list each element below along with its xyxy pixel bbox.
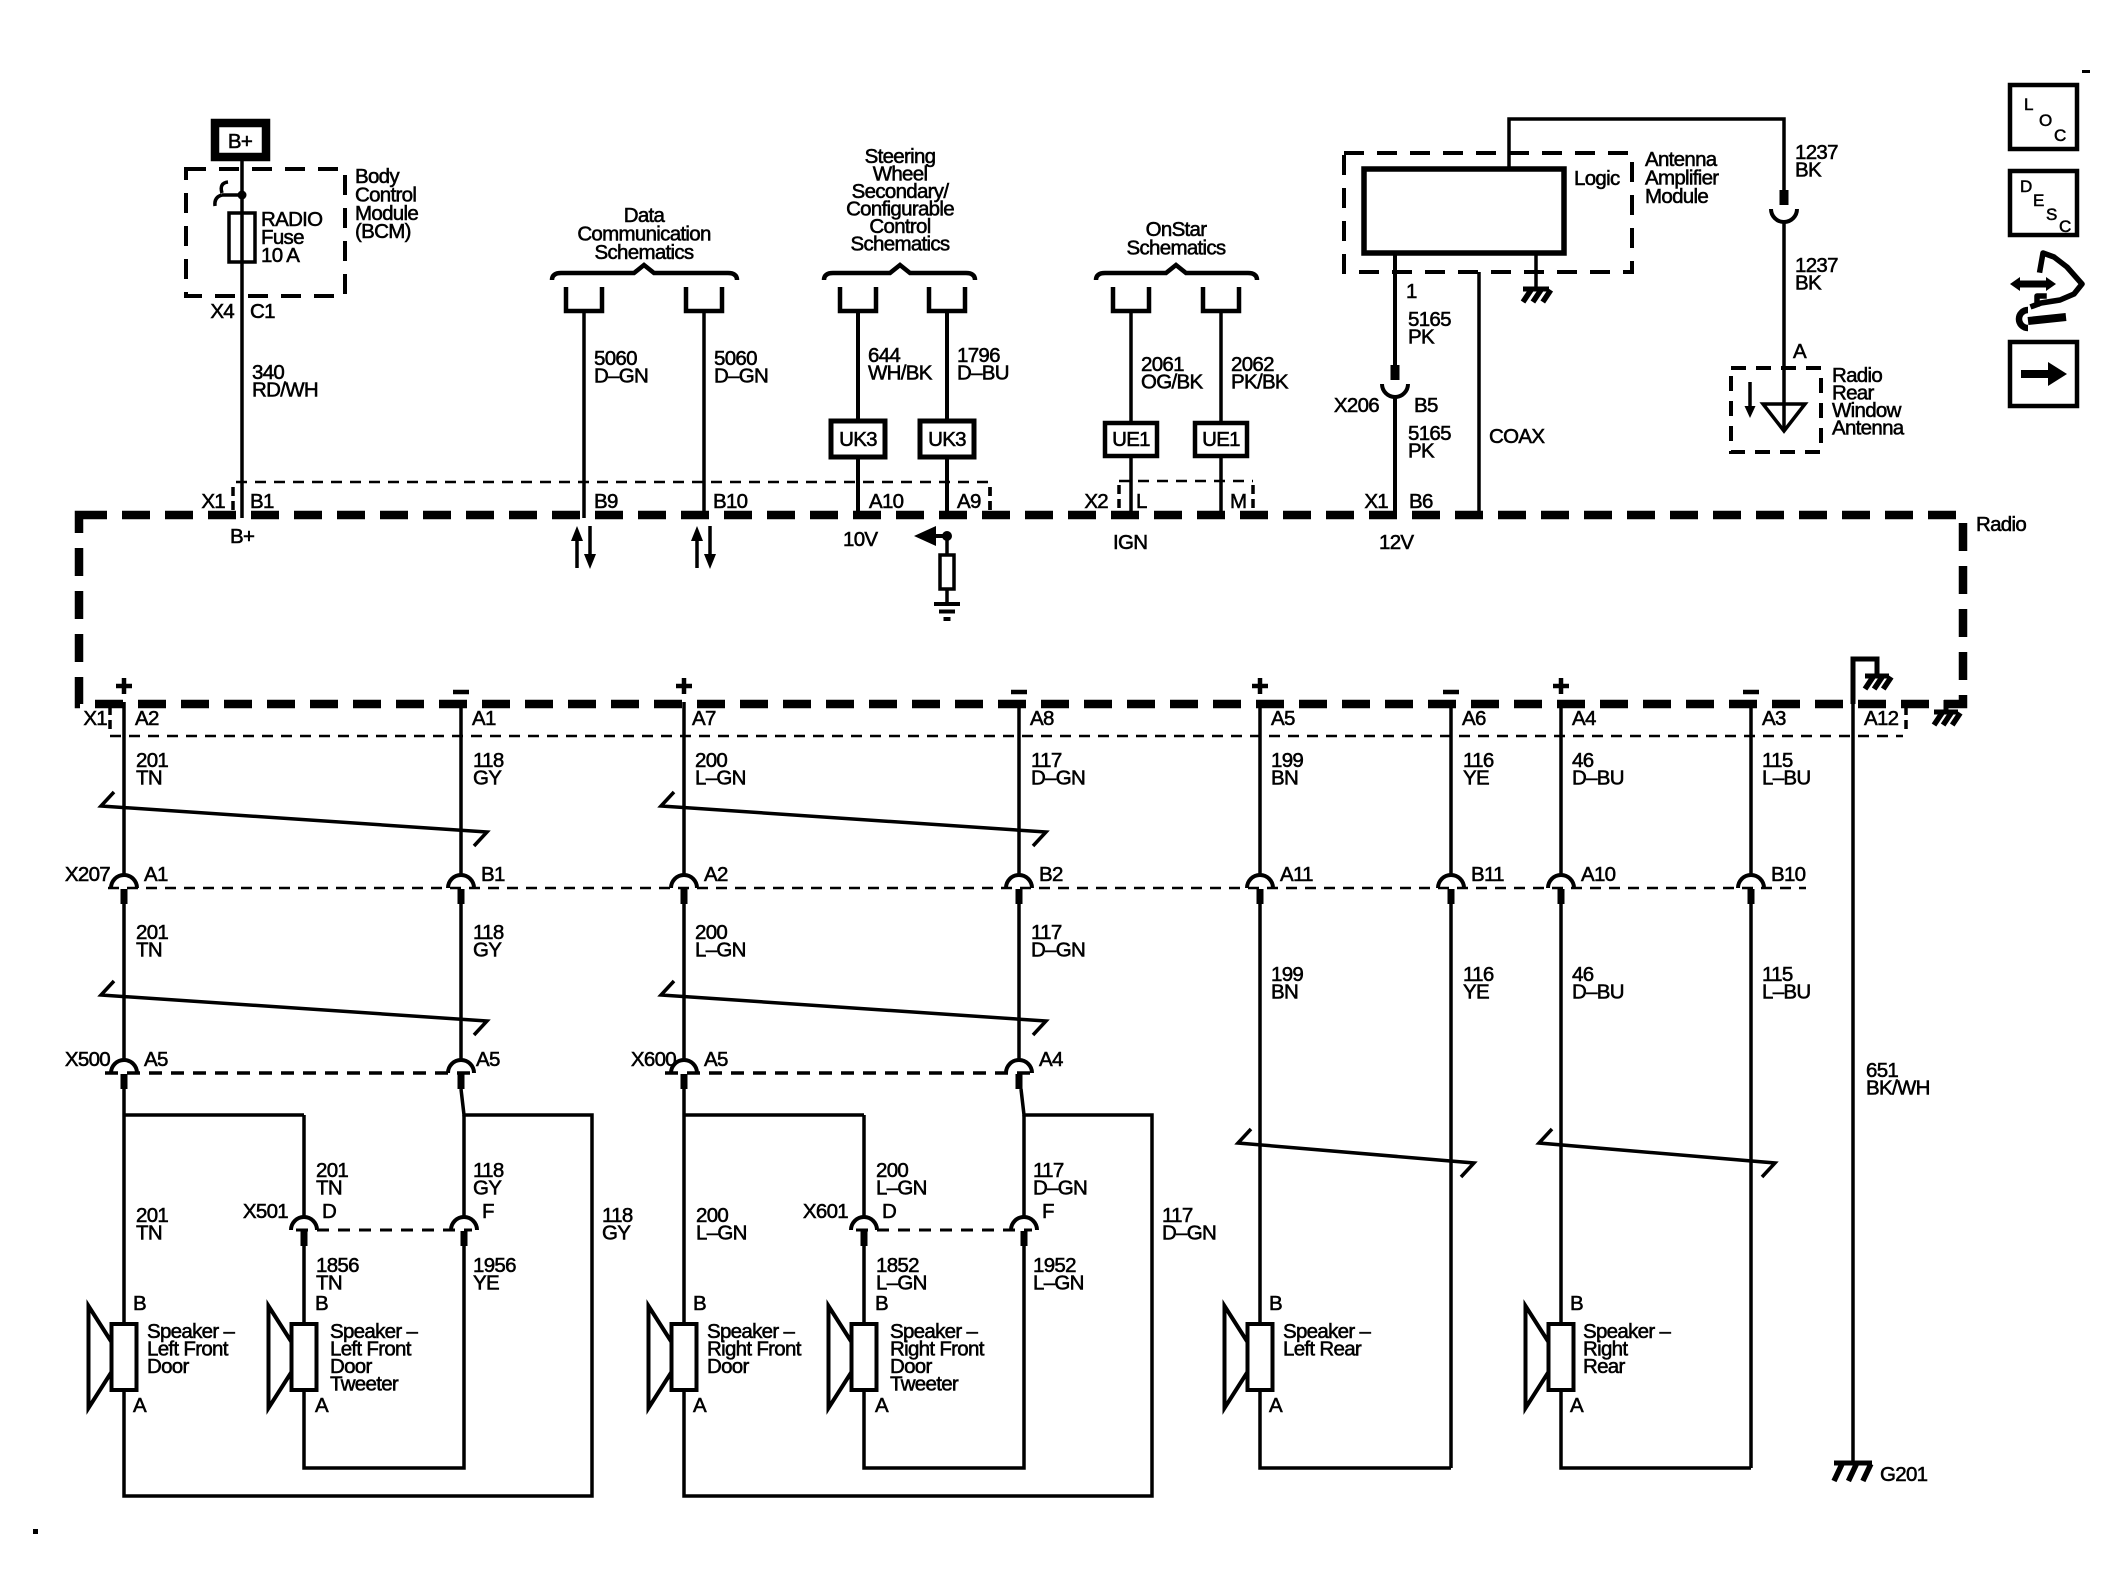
connector X207 pin B10: [1738, 863, 1806, 904]
svg-text:D–GN: D–GN: [1031, 939, 1085, 962]
data communication schematics title and brace: [552, 204, 737, 280]
svg-text:F: F: [482, 1200, 494, 1223]
pin B6 at radio connector X1: [1364, 490, 1433, 513]
svg-text:Module: Module: [1645, 185, 1708, 208]
svg-text:L–GN: L–GN: [695, 939, 746, 962]
connector X600 pin A4: [1006, 1048, 1063, 1089]
svg-text:X501: X501: [243, 1200, 288, 1223]
svg-text:A8: A8: [1030, 707, 1054, 730]
svg-text:TN: TN: [316, 1177, 342, 1200]
svg-text:TN: TN: [136, 767, 162, 790]
svg-text:X601: X601: [803, 1200, 848, 1223]
node 12V: [1379, 531, 1414, 554]
connector X600 row: [631, 1048, 1035, 1073]
svg-text:B: B: [1269, 1292, 1282, 1315]
svg-text:D–BU: D–BU: [1572, 767, 1624, 790]
radio case ground at right corner: [1934, 700, 1960, 725]
speaker left rear: [1225, 1292, 1372, 1417]
svg-text:GY: GY: [473, 939, 502, 962]
right rear speaker loop: [1561, 1390, 1751, 1468]
wire 2061 OG/BK: [1131, 311, 1203, 518]
svg-text:Schematics: Schematics: [595, 241, 694, 264]
svg-text:D: D: [322, 1200, 336, 1223]
svg-text:B: B: [315, 1292, 328, 1315]
twisted pair crossover left front (speaker side): [101, 981, 487, 1035]
wire 116 YE radio to X207: [1451, 702, 1494, 875]
radio output pin labels: [135, 707, 1899, 730]
wire 118 GY return left front door: [124, 1089, 633, 1496]
connector drop M: [1203, 287, 1239, 311]
wire 1856 TN tweeter feed: [304, 1246, 359, 1324]
svg-text:X2: X2: [1084, 490, 1108, 513]
connector X600 pin A5: [671, 1048, 728, 1089]
node IGN: [1113, 531, 1147, 554]
svg-text:E: E: [2033, 191, 2044, 210]
svg-text:A1: A1: [144, 863, 168, 886]
wire 5060 D-GN to B9: [584, 311, 648, 518]
connector X601 pin F: [1011, 1200, 1054, 1246]
svg-text:X1: X1: [83, 707, 107, 730]
connector X501 pin D: [291, 1200, 336, 1246]
twisted pair crossover right front (speaker side): [661, 981, 1046, 1035]
connector X207 pin A2: [671, 863, 728, 904]
wire 200 L–GN radio to X207: [684, 702, 746, 875]
wire 115 L–BU X207 to rear speaker: [1751, 904, 1810, 1468]
radio speaker output polarity marks: [116, 678, 1759, 694]
svg-text:A3: A3: [1762, 707, 1786, 730]
svg-text:A10: A10: [1581, 863, 1616, 886]
svg-text:C: C: [2054, 126, 2066, 145]
svg-text:D–GN: D–GN: [714, 365, 768, 388]
stray scan mark bottom left: [33, 1529, 38, 1534]
svg-text:Rear: Rear: [1583, 1355, 1626, 1378]
svg-text:Schematics: Schematics: [1127, 236, 1226, 259]
option code UK3 on wire 1796: [920, 421, 974, 457]
svg-text:X1: X1: [1364, 490, 1388, 513]
svg-text:TN: TN: [136, 939, 162, 962]
svg-text:Tweeter: Tweeter: [330, 1373, 399, 1396]
wire 5165 PK to radio pin B6: [1395, 397, 1451, 518]
wire 1237 BK lower segment: [1784, 222, 1838, 430]
wire 2062 PK/BK: [1221, 311, 1289, 518]
wire 200 L–GN feed right front door speaker: [684, 1089, 864, 1324]
connector X4 pin C1: [210, 300, 275, 323]
connector X501 pin F: [451, 1200, 494, 1246]
wire 46 D–BU X207 to rear speaker: [1561, 904, 1624, 1324]
wire 1 5165 PK from logic: [1395, 253, 1451, 365]
svg-text:A5: A5: [144, 1048, 168, 1071]
svg-text:L: L: [2024, 95, 2033, 114]
icon forward arrow box: [2010, 342, 2077, 406]
connector X207 pin B11: [1438, 863, 1504, 904]
option code UK3 on wire 644: [831, 421, 885, 457]
svg-text:BK: BK: [1795, 159, 1822, 182]
wire 201 TN X207 to front connector: [124, 904, 168, 1060]
body control module BCM dashed box: [186, 165, 418, 296]
svg-text:A: A: [1269, 1394, 1283, 1417]
twisted pair crossover right rear: [1539, 1129, 1775, 1177]
svg-text:A9: A9: [957, 490, 981, 513]
svg-text:B10: B10: [1771, 863, 1806, 886]
svg-text:Schematics: Schematics: [851, 233, 950, 256]
connector drop B10: [686, 287, 722, 311]
wire 118 GY radio to X207: [461, 702, 504, 875]
antenna amplifier module dashed box: [1344, 148, 1719, 272]
svg-text:L–BU: L–BU: [1762, 767, 1810, 790]
pin B9: [594, 490, 618, 513]
node 10V: [843, 528, 878, 551]
svg-text:B10: B10: [713, 490, 748, 513]
svg-text:A10: A10: [869, 490, 904, 513]
connector drop L: [1113, 287, 1149, 311]
wire 115 L–BU radio to X207: [1751, 702, 1810, 875]
svg-text:C: C: [2059, 217, 2071, 236]
svg-text:A2: A2: [704, 863, 728, 886]
svg-text:L–GN: L–GN: [695, 767, 746, 790]
svg-text:BK: BK: [1795, 272, 1822, 295]
connector X2 strip with pins L and M: [1084, 481, 1253, 513]
svg-text:X4: X4: [210, 300, 234, 323]
svg-text:B: B: [1570, 1292, 1583, 1315]
speaker left front door: [89, 1292, 236, 1417]
icon LOC box: [2010, 85, 2077, 149]
speaker left front door tweeter: [269, 1292, 419, 1417]
svg-text:B9: B9: [594, 490, 618, 513]
wire 46 D–BU radio to X207: [1561, 702, 1624, 875]
icon DESC box: [2010, 171, 2077, 236]
svg-text:Door: Door: [707, 1355, 750, 1378]
svg-text:IGN: IGN: [1113, 531, 1147, 554]
connector X500 pin A5 right: [448, 1048, 500, 1089]
ground of logic block: [1523, 253, 1551, 302]
connector X207 row: [65, 863, 1806, 888]
svg-text:A6: A6: [1462, 707, 1486, 730]
node B+ at radio pin B1: [230, 525, 254, 548]
connector drop A9: [929, 287, 965, 311]
wire 117 D–GN X207 to front connector: [1019, 904, 1085, 1060]
svg-text:A: A: [693, 1394, 707, 1417]
svg-text:UK3: UK3: [928, 428, 966, 451]
svg-text:A: A: [315, 1394, 329, 1417]
svg-text:D–BU: D–BU: [1572, 981, 1624, 1004]
svg-text:D–GN: D–GN: [594, 365, 648, 388]
stray scan mark top right: [2082, 70, 2090, 73]
internal pull-up: left arrow, resistor and ground at A9: [914, 526, 960, 619]
svg-text:D–GN: D–GN: [1162, 1222, 1216, 1245]
svg-text:L–GN: L–GN: [696, 1222, 747, 1245]
svg-text:B6: B6: [1409, 490, 1433, 513]
ground G201: [1834, 1463, 1928, 1486]
speaker right front door: [649, 1292, 802, 1417]
svg-text:BK/WH: BK/WH: [1866, 1077, 1930, 1100]
speaker right rear: [1526, 1292, 1672, 1417]
svg-text:L–BU: L–BU: [1762, 981, 1810, 1004]
connector drop B9: [566, 287, 602, 311]
svg-text:YE: YE: [1463, 767, 1489, 790]
wire 117 D–GN return right front door: [684, 1089, 1216, 1496]
left rear speaker loop: [1260, 1390, 1451, 1468]
svg-text:TN: TN: [136, 1222, 162, 1245]
svg-text:B2: B2: [1039, 863, 1063, 886]
svg-text:B: B: [133, 1292, 146, 1315]
option code UE1 on wire 2061: [1105, 423, 1157, 456]
pin A9: [957, 487, 990, 513]
radio rear window antenna dashed box: [1731, 364, 1905, 452]
connector X601 row: [803, 1200, 1032, 1230]
speaker right front door tweeter: [829, 1292, 985, 1417]
circuit breaker symbol inside BCM: [215, 182, 247, 206]
twisted pair crossover left rear: [1238, 1129, 1474, 1177]
inline connector X206 pin B5: [1334, 365, 1438, 417]
svg-text:A12: A12: [1864, 707, 1899, 730]
power symbol B+ box: [215, 123, 266, 157]
pin A10: [869, 490, 904, 513]
connector X207 pin B1: [448, 863, 505, 904]
svg-text:B+: B+: [228, 130, 252, 153]
svg-text:(BCM): (BCM): [355, 220, 411, 243]
svg-text:YE: YE: [1463, 981, 1489, 1004]
wire 1952 L–GN tweeter return: [864, 1246, 1084, 1468]
svg-text:A5: A5: [1271, 707, 1295, 730]
svg-text:UK3: UK3: [839, 428, 877, 451]
svg-text:X206: X206: [1334, 394, 1379, 417]
connector X1 bottom strip: [83, 706, 1906, 736]
svg-text:Door: Door: [147, 1355, 190, 1378]
svg-text:10 A: 10 A: [261, 244, 300, 267]
svg-text:O: O: [2039, 111, 2052, 130]
svg-text:A4: A4: [1039, 1048, 1063, 1071]
svg-text:A1: A1: [472, 707, 496, 730]
connector drop A10: [840, 287, 876, 311]
svg-text:YE: YE: [473, 1272, 499, 1295]
svg-text:WH/BK: WH/BK: [868, 362, 933, 385]
connector X207 pin A1: [111, 863, 168, 904]
svg-text:D–BU: D–BU: [957, 362, 1009, 385]
svg-text:PK: PK: [1408, 326, 1435, 349]
svg-text:Tweeter: Tweeter: [890, 1373, 959, 1396]
svg-text:RD/WH: RD/WH: [252, 379, 318, 402]
wire 340 RD/WH from B+ through BCM to radio pin B1: [240, 161, 244, 518]
svg-text:GY: GY: [473, 1177, 502, 1200]
wire 201 TN feed left front door speaker: [124, 1089, 304, 1324]
svg-text:X1: X1: [201, 490, 225, 513]
COAX wire from antenna amplifier to radio: [1479, 272, 1545, 518]
svg-text:C1: C1: [250, 300, 275, 323]
option code UE1 on wire 2062: [1195, 423, 1247, 456]
svg-text:A4: A4: [1572, 707, 1596, 730]
wire 1852 L–GN tweeter feed: [864, 1246, 927, 1324]
svg-text:Logic: Logic: [1574, 167, 1620, 190]
svg-text:A: A: [1793, 340, 1807, 363]
svg-text:M: M: [1230, 490, 1246, 513]
connector X500 row: [65, 1048, 475, 1073]
connector X501 row: [243, 1200, 472, 1230]
wire label 340 RD/WH: [252, 361, 318, 402]
wire 116 YE X207 to rear speaker: [1451, 904, 1494, 1468]
svg-text:BN: BN: [1271, 981, 1298, 1004]
connector X207 pin B2: [1006, 863, 1063, 904]
svg-text:A11: A11: [1280, 863, 1313, 886]
connector X207 pin A11: [1247, 863, 1313, 904]
connector X1 top strip: [201, 482, 990, 513]
svg-text:Left Rear: Left Rear: [1283, 1338, 1362, 1361]
svg-text:F: F: [1042, 1200, 1054, 1223]
svg-text:OG/BK: OG/BK: [1141, 371, 1203, 394]
svg-text:Antenna: Antenna: [1832, 417, 1905, 440]
connector X500 pin A5 left: [111, 1048, 168, 1089]
svg-text:L–GN: L–GN: [876, 1177, 927, 1200]
svg-text:L: L: [1136, 490, 1147, 513]
svg-text:X500: X500: [65, 1048, 110, 1071]
pin B10: [713, 490, 748, 513]
svg-text:X207: X207: [65, 863, 110, 886]
svg-text:L–GN: L–GN: [1033, 1272, 1084, 1295]
wire to tweeter from X501: [304, 1115, 348, 1217]
svg-text:D: D: [882, 1200, 896, 1223]
connector X207 pin A10: [1548, 863, 1616, 904]
wire 5060 D-GN to B10: [704, 311, 768, 518]
connector X601 pin D: [851, 1200, 896, 1246]
svg-text:D–GN: D–GN: [1033, 1177, 1087, 1200]
bidirectional data arrows at B10: [691, 526, 716, 569]
wire to tweeter from X601: [864, 1115, 927, 1217]
wire 1796 D-BU: [947, 311, 1009, 518]
wire 1956 YE tweeter return: [304, 1246, 516, 1468]
svg-text:S: S: [2046, 205, 2057, 224]
svg-text:COAX: COAX: [1489, 425, 1545, 448]
svg-text:PK/BK: PK/BK: [1231, 371, 1289, 394]
logic block inside antenna amplifier module: [1364, 169, 1564, 253]
svg-text:A: A: [875, 1394, 889, 1417]
radio internal ground at pin A12: [1853, 659, 1891, 704]
wire 118 GY X207 to front connector: [461, 904, 504, 1060]
svg-text:A: A: [1570, 1394, 1584, 1417]
wire from logic to rear window antenna 1237 BK: [1509, 119, 1838, 190]
svg-text:D: D: [2020, 177, 2032, 196]
OnStar schematics title and brace: [1096, 218, 1257, 280]
svg-text:B1: B1: [250, 490, 274, 513]
steering wheel secondary/configurable control schematics title and brace: [824, 145, 975, 280]
antenna symbol: [1763, 404, 1805, 431]
icon double arrow with wrench (component view): [2010, 253, 2082, 328]
svg-text:UE1: UE1: [1202, 428, 1240, 451]
svg-text:PK: PK: [1408, 440, 1435, 463]
svg-text:A2: A2: [135, 707, 159, 730]
bidirectional data arrows at B9: [571, 526, 596, 569]
svg-text:GY: GY: [602, 1222, 631, 1245]
svg-text:12V: 12V: [1379, 531, 1414, 554]
svg-text:A5: A5: [704, 1048, 728, 1071]
wire 199 BN X207 to rear speaker: [1260, 904, 1303, 1324]
svg-text:A7: A7: [692, 707, 716, 730]
inline connector on antenna lead: [1771, 190, 1797, 222]
svg-text:B1: B1: [481, 863, 505, 886]
svg-text:X600: X600: [631, 1048, 676, 1071]
svg-text:D–GN: D–GN: [1031, 767, 1085, 790]
fuse RADIO Fuse 10 A: [229, 208, 322, 267]
wire 651 BK/WH radio ground to G201: [1853, 702, 1930, 1462]
svg-text:G201: G201: [1880, 1463, 1928, 1486]
svg-text:B: B: [875, 1292, 888, 1315]
svg-text:UE1: UE1: [1112, 428, 1150, 451]
svg-text:A: A: [133, 1394, 147, 1417]
svg-text:B11: B11: [1471, 863, 1504, 886]
wire 201 TN radio to X207: [124, 702, 168, 875]
svg-text:A5: A5: [476, 1048, 500, 1071]
svg-text:BN: BN: [1271, 767, 1298, 790]
svg-text:B+: B+: [230, 525, 254, 548]
svg-text:1: 1: [1406, 280, 1417, 303]
wire 644 WH/BK: [858, 311, 933, 518]
radio module dashed box: [79, 513, 2026, 704]
wire 199 BN radio to X207: [1260, 702, 1303, 875]
svg-text:B5: B5: [1414, 394, 1438, 417]
twisted pair crossover right front (radio side): [661, 792, 1046, 846]
antenna signal down arrow: [1745, 382, 1756, 418]
svg-text:10V: 10V: [843, 528, 878, 551]
wire 117 D–GN radio to X207: [1019, 702, 1085, 875]
svg-text:GY: GY: [473, 767, 502, 790]
twisted pair crossover left front (radio side): [101, 792, 487, 846]
svg-text:Radio: Radio: [1976, 513, 2026, 536]
svg-text:B: B: [693, 1292, 706, 1315]
wire 200 L–GN X207 to front connector: [684, 904, 746, 1060]
